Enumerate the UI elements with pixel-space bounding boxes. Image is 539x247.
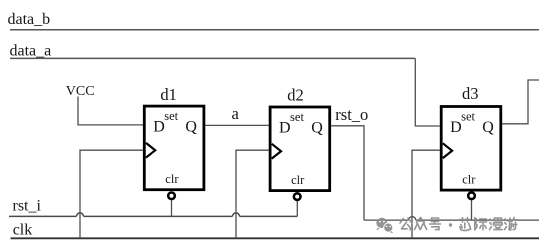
svg-text:data_a: data_a	[10, 43, 52, 60]
svg-text:Q: Q	[482, 119, 494, 136]
svg-text:d1: d1	[160, 85, 177, 104]
svg-text:D: D	[279, 119, 291, 136]
svg-text:set: set	[461, 110, 475, 124]
svg-text:clr: clr	[165, 172, 179, 186]
svg-text:set: set	[290, 110, 304, 124]
svg-text:D: D	[153, 118, 165, 135]
svg-text:rst_i: rst_i	[13, 198, 42, 215]
svg-text:clk: clk	[13, 221, 33, 238]
svg-text:data_b: data_b	[8, 11, 51, 28]
svg-text:d2: d2	[287, 86, 304, 105]
svg-text:a: a	[232, 104, 240, 123]
svg-text:D: D	[450, 119, 462, 136]
svg-text:d3: d3	[462, 84, 479, 103]
svg-text:rst_o: rst_o	[335, 105, 368, 124]
svg-text:Q: Q	[185, 118, 197, 135]
svg-text:clr: clr	[291, 173, 305, 187]
svg-text:clr: clr	[462, 172, 476, 186]
svg-text:VCC: VCC	[66, 84, 95, 99]
svg-text:Q: Q	[311, 119, 323, 136]
svg-text:set: set	[164, 109, 178, 123]
